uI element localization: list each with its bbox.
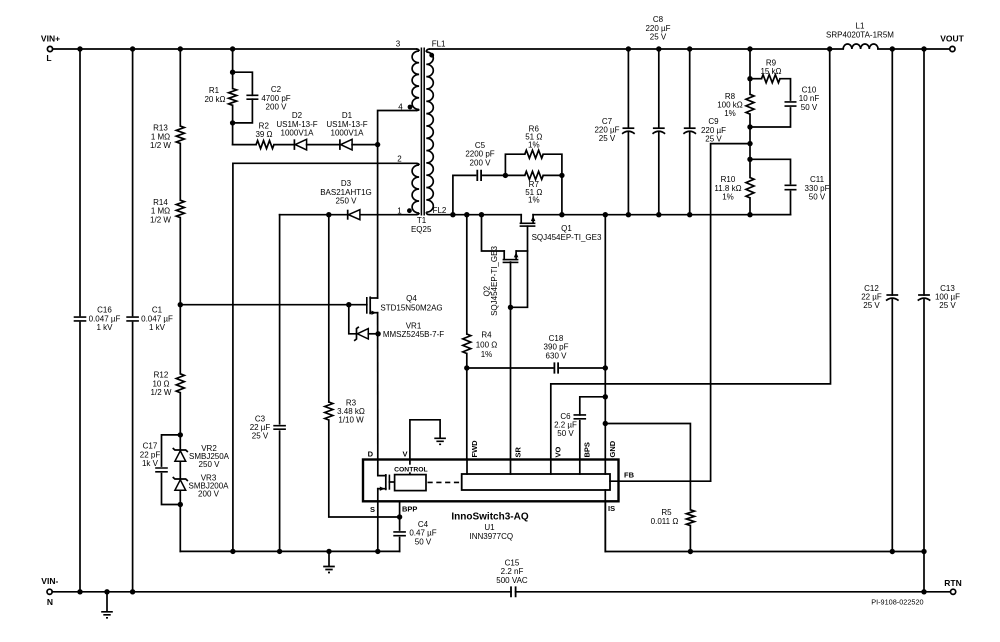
svg-text:100 Ω: 100 Ω (476, 340, 498, 349)
op-amp U1 IC box (363, 460, 619, 502)
pin BPP label (402, 504, 417, 513)
wire VR3 to gnd rail (179, 491, 181, 552)
pin 1 label + polarity dot (397, 206, 412, 215)
junction C12 at gnd rail (890, 549, 895, 554)
svg-text:BPP: BPP (402, 504, 417, 513)
wire VR2 to VR3 (179, 462, 181, 480)
wire R5 to gnd rail (689, 526, 691, 552)
svg-text:220 µF: 220 µF (701, 126, 726, 135)
svg-text:IS: IS (608, 504, 615, 513)
capacitor C1 (126, 306, 173, 332)
transformer T1 primary winding pins 3-4 (412, 49, 419, 111)
svg-text:PI-9108-022520: PI-9108-022520 (871, 598, 923, 607)
wire FB tap to riser (711, 144, 750, 482)
zener VR1 (349, 305, 444, 341)
wire D2 to D1 (307, 144, 340, 146)
junction R9/R8 top (747, 76, 752, 81)
pin VO label (554, 446, 563, 457)
svg-text:390 pF: 390 pF (544, 343, 569, 352)
zener VR2 (173, 444, 230, 469)
wire bottom rail (VIN- to C15) (52, 591, 511, 593)
svg-text:3.48 kΩ: 3.48 kΩ (337, 407, 365, 416)
ground (V pin) (434, 438, 446, 444)
node VOUT terminal (940, 34, 964, 52)
inductor L1 (826, 21, 894, 49)
capacitor C16 (74, 306, 121, 332)
U1 secondary block (462, 474, 610, 490)
junction top rail at R13 (178, 46, 183, 51)
junction C13/RTN at gnd rail (921, 549, 926, 554)
junction top rail at C12 (890, 46, 895, 51)
wire SR node to SR pin (510, 307, 512, 459)
wire top rail (VIN+ to transformer pin 3) (53, 48, 416, 50)
wire R13 to R14 (179, 143, 181, 200)
svg-text:MMSZ5245B-7-F: MMSZ5245B-7-F (383, 330, 444, 339)
wire primary gnd rail (180, 550, 399, 552)
svg-text:25 V: 25 V (939, 301, 956, 310)
svg-text:100 µF: 100 µF (935, 293, 960, 302)
svg-text:C13: C13 (940, 284, 955, 293)
svg-text:50 V: 50 V (415, 537, 432, 546)
junction top rail at C7 (626, 46, 631, 51)
svg-text:20 kΩ: 20 kΩ (204, 95, 225, 104)
junction C9 bottom (687, 212, 692, 217)
svg-text:1 MΩ: 1 MΩ (151, 132, 170, 141)
svg-text:1 kV: 1 kV (96, 323, 113, 332)
wire R4 top (466, 215, 468, 334)
junction R10 bottom (747, 212, 752, 217)
svg-text:25 V: 25 V (252, 432, 269, 441)
svg-text:C8: C8 (653, 15, 664, 24)
pin V label (402, 449, 407, 458)
wire R8 bottom (749, 114, 751, 159)
capacitor C6 (554, 397, 605, 460)
U1 name label (451, 512, 528, 541)
wire V pin internal (409, 460, 411, 475)
junction C7 bottom (626, 212, 631, 217)
capacitor C3 (250, 414, 286, 440)
svg-text:C3: C3 (255, 414, 266, 423)
pin 2 label (397, 154, 402, 163)
wire V pin to ground (410, 420, 440, 460)
resistor R9 (750, 58, 782, 82)
capacitor C17 (140, 435, 181, 505)
svg-text:C9: C9 (708, 117, 719, 126)
svg-text:1 MΩ: 1 MΩ (151, 207, 170, 216)
pin D label (368, 449, 374, 458)
transistor Q2 (483, 246, 519, 316)
svg-text:C10: C10 (802, 86, 817, 95)
svg-text:39 Ω: 39 Ω (255, 130, 272, 139)
svg-text:FL1: FL1 (432, 39, 446, 48)
diode D2 (276, 111, 317, 150)
svg-text:220 µF: 220 µF (594, 126, 619, 135)
svg-text:4700 pF: 4700 pF (261, 94, 290, 103)
junction top rail at C13 (921, 46, 926, 51)
junction S at gnd rail (375, 549, 380, 554)
pin GND stub (604, 460, 606, 475)
junction R8/C10 bottom (747, 124, 752, 129)
junction R6R7 left (503, 173, 508, 178)
junction bottom rail at C16 (77, 589, 82, 594)
wire R13-R14 column top (179, 49, 181, 126)
wire top output rail (FL1 to L1) (430, 48, 843, 50)
svg-text:C11: C11 (810, 175, 825, 184)
junction R5 at gnd rail (688, 549, 693, 554)
capacitor C12 (861, 49, 898, 552)
capacitor C7 (594, 49, 634, 215)
wire U1 dashed link (428, 481, 462, 483)
junction R1/C2 top (230, 70, 235, 75)
wire R2 to D2 (274, 144, 294, 146)
junction top rail at C8 (656, 46, 661, 51)
svg-text:D1: D1 (342, 111, 353, 120)
svg-text:US1M-13-F: US1M-13-F (326, 120, 367, 129)
wire D pin internal (378, 460, 386, 476)
capacitor C8 (645, 15, 670, 215)
svg-text:SQJ454EP-TI_GE3: SQJ454EP-TI_GE3 (490, 246, 499, 316)
svg-text:C16: C16 (97, 306, 112, 315)
svg-text:0.047 µF: 0.047 µF (141, 314, 173, 323)
svg-text:R12: R12 (154, 371, 169, 380)
svg-text:STD15N50M2AG: STD15N50M2AG (380, 304, 442, 313)
svg-text:U1: U1 (484, 523, 495, 532)
svg-text:C18: C18 (549, 334, 564, 343)
svg-text:630 V: 630 V (546, 351, 568, 360)
junction R10/C11 top (747, 157, 752, 162)
svg-text:1/2 W: 1/2 W (150, 141, 171, 150)
svg-text:VIN+: VIN+ (41, 34, 60, 44)
resistor R6 (505, 125, 562, 176)
node VIN+ terminal (41, 34, 60, 64)
capacitor C15 (496, 558, 528, 597)
svg-text:25 V: 25 V (599, 134, 616, 143)
svg-text:2200 pF: 2200 pF (465, 150, 494, 159)
svg-text:C5: C5 (475, 141, 486, 150)
svg-text:INN3977CQ: INN3977CQ (470, 532, 514, 541)
resistor R5 (651, 508, 695, 526)
pin BPS stub (579, 460, 581, 475)
svg-text:S: S (370, 505, 375, 514)
transformer T1 bias winding pins 2-1 (412, 163, 419, 214)
wire clamp row left (233, 144, 257, 146)
junction C3 at gnd rail (277, 549, 282, 554)
wire C1 column (132, 49, 134, 592)
wire R4 bottom to FWD (466, 354, 468, 460)
wire GND to R5 (605, 424, 690, 510)
wire R1 bottom (232, 105, 234, 144)
svg-text:3: 3 (396, 39, 401, 48)
svg-text:1 kV: 1 kV (149, 323, 166, 332)
svg-text:SR: SR (513, 446, 522, 457)
svg-text:FL2: FL2 (433, 206, 447, 215)
svg-text:C4: C4 (418, 520, 429, 529)
junction R6R7 right (559, 173, 564, 178)
transistor Q1 (520, 215, 602, 242)
svg-text:22 pF: 22 pF (140, 450, 161, 459)
pin S label (370, 505, 375, 514)
junction R1/C2 bottom (230, 120, 235, 125)
resistor R8 (717, 79, 754, 119)
drawing number label (871, 598, 923, 607)
junction R5 branch node (603, 421, 608, 426)
svg-text:2.2 nF: 2.2 nF (501, 567, 524, 576)
wire C5 to R7 (505, 174, 524, 176)
svg-text:220 µF: 220 µF (645, 24, 670, 33)
svg-text:1%: 1% (528, 196, 540, 205)
svg-text:Q1: Q1 (561, 224, 572, 233)
pin 3 label (396, 39, 401, 48)
svg-text:D: D (368, 449, 374, 458)
wire clamp junction down to Q4 drain (377, 145, 379, 298)
wire D3 to C3 branch (280, 214, 348, 216)
svg-text:R2: R2 (259, 122, 270, 131)
svg-text:1000V1A: 1000V1A (331, 129, 365, 138)
svg-text:R9: R9 (766, 58, 777, 67)
pin GND label (608, 440, 617, 457)
resistor R13 (150, 124, 184, 150)
svg-text:R5: R5 (661, 508, 672, 517)
junction C18 left (464, 365, 469, 370)
svg-text:C12: C12 (864, 284, 879, 293)
svg-text:VO: VO (554, 446, 563, 457)
junction GND column top (603, 212, 608, 217)
wire Q4 gate row (180, 304, 366, 306)
svg-text:L1: L1 (856, 21, 865, 30)
capacitor C11 (750, 159, 830, 214)
svg-text:CONTROL: CONTROL (394, 466, 428, 473)
svg-text:C17: C17 (143, 442, 158, 451)
svg-text:100 kΩ: 100 kΩ (717, 101, 743, 110)
svg-text:1%: 1% (528, 141, 540, 150)
wire secondary gnd rail (605, 501, 924, 592)
svg-text:22 µF: 22 µF (250, 423, 271, 432)
svg-text:0.047 µF: 0.047 µF (89, 314, 121, 323)
svg-text:10 nF: 10 nF (799, 94, 820, 103)
resistor R12 (151, 371, 185, 397)
svg-text:V: V (402, 449, 407, 458)
capacitor C4 (393, 520, 436, 552)
svg-text:200 V: 200 V (470, 158, 492, 167)
wire S pin (377, 501, 379, 551)
wire D1 to switch node (352, 144, 378, 146)
svg-text:10 Ω: 10 Ω (152, 379, 169, 388)
pin FL1 label + polarity dot (429, 39, 446, 57)
svg-text:R3: R3 (346, 398, 357, 407)
transformer T1 core (421, 48, 424, 216)
svg-text:R10: R10 (721, 175, 736, 184)
wire Q2 gate feed (482, 215, 505, 251)
capacitor C2 (233, 72, 291, 123)
wire Q2 drain to SR node (516, 250, 527, 252)
wire C3 column (279, 215, 281, 552)
junction C8 bottom (656, 212, 661, 217)
wire pin 1 to D3 (359, 214, 416, 216)
svg-text:200 V: 200 V (198, 490, 220, 499)
svg-text:15 kΩ: 15 kΩ (760, 67, 781, 76)
svg-text:11.8 kΩ: 11.8 kΩ (714, 184, 741, 193)
svg-text:VOUT: VOUT (940, 34, 964, 44)
wire FL2 rail right of Q1 (533, 214, 790, 216)
transformer T1 reference label (411, 216, 432, 234)
svg-text:1k V: 1k V (142, 459, 159, 468)
wire VO sense riser (551, 49, 831, 460)
pin SR label (513, 446, 522, 457)
junction D3/R3 node (326, 212, 331, 217)
wire BPP pin (399, 501, 401, 530)
resistor R2 (255, 122, 274, 149)
svg-text:0.011 Ω: 0.011 Ω (651, 517, 679, 526)
transformer T1 secondary winding FL1-FL2 (426, 49, 433, 215)
wire rail to divider (749, 49, 751, 79)
capacitor C13 (918, 49, 960, 552)
svg-text:VIN-: VIN- (41, 576, 58, 586)
wire R3 to BPP wire (329, 420, 400, 517)
capacitor C10 (750, 79, 819, 127)
wire R1 column top (232, 49, 234, 89)
wire top output rail (L1 to VOUT) (878, 48, 950, 50)
wire Q1 gate down (511, 226, 528, 307)
svg-text:22 µF: 22 µF (861, 293, 882, 302)
svg-text:50 V: 50 V (801, 103, 818, 112)
capacitor C18 (467, 334, 606, 374)
svg-text:US1M-13-F: US1M-13-F (276, 120, 317, 129)
wire FB pin (610, 480, 711, 482)
junction VR1 gate node (346, 302, 351, 307)
transistor U1 internal MOSFET (378, 475, 395, 501)
svg-text:250 V: 250 V (336, 197, 358, 206)
junction C17 bottom (178, 502, 183, 507)
junction BPP/R3 (397, 514, 402, 519)
wire R14 to R12 (179, 218, 181, 374)
zener VR3 (173, 474, 229, 499)
pin 4 label + polarity dot (398, 102, 412, 111)
svg-text:L: L (46, 53, 51, 63)
svg-text:1%: 1% (481, 350, 493, 359)
junction Q2 gate tap (479, 212, 484, 217)
junction top rail at R1 (230, 46, 235, 51)
wire pin 2 to left column (233, 163, 416, 551)
svg-text:C15: C15 (505, 558, 520, 567)
junction C6 top node (603, 394, 608, 399)
junction top rail at C9 (687, 46, 692, 51)
node VIN- terminal (41, 576, 58, 607)
junction C17 top (178, 432, 183, 437)
svg-text:200 V: 200 V (266, 103, 288, 112)
junction Q4 gate tap (178, 302, 183, 307)
svg-text:50 V: 50 V (809, 193, 826, 202)
wire pin 4 to switch column (378, 111, 416, 145)
junction C5 tap (450, 212, 455, 217)
svg-text:330 pF: 330 pF (805, 184, 830, 193)
diode D1 (326, 111, 367, 150)
junction SR node (508, 305, 513, 310)
junction FB tap (747, 141, 752, 146)
svg-text:InnoSwitch3-AQ: InnoSwitch3-AQ (451, 512, 528, 523)
wire ground stub (328, 551, 330, 566)
svg-text:500 VAC: 500 VAC (496, 576, 528, 585)
capacitor C5 (453, 141, 506, 215)
junction clamp/switch node (375, 142, 380, 147)
svg-text:RTN: RTN (944, 578, 961, 588)
svg-text:2: 2 (397, 154, 402, 163)
pin SR stub (510, 460, 512, 475)
svg-text:R8: R8 (725, 92, 736, 101)
svg-text:1000V1A: 1000V1A (281, 129, 315, 138)
svg-text:R1: R1 (209, 86, 220, 95)
svg-text:1/2 W: 1/2 W (151, 388, 172, 397)
ground (primary return) (323, 567, 335, 573)
svg-text:R14: R14 (153, 198, 168, 207)
svg-text:SQJ454EP-TI_GE3: SQJ454EP-TI_GE3 (532, 233, 602, 242)
pin BPS label (583, 442, 592, 457)
junction R6R7 right leg (559, 212, 564, 217)
wire bottom rail (C15 to RTN) (516, 591, 951, 593)
wire C16 column (79, 49, 81, 592)
wire FL2 rail left of Q1 (430, 214, 521, 216)
svg-text:Q4: Q4 (406, 294, 417, 303)
junction C18 right (603, 365, 608, 370)
svg-text:1%: 1% (722, 193, 734, 202)
svg-text:T1: T1 (417, 216, 427, 225)
svg-text:N: N (47, 597, 53, 607)
wire GND column (604, 215, 606, 460)
svg-text:C2: C2 (271, 85, 282, 94)
svg-text:1/10 W: 1/10 W (338, 416, 364, 425)
junction VR1 at source column (375, 331, 380, 336)
U1 CONTROL block (392, 465, 430, 491)
pin FL2 label (433, 206, 447, 215)
svg-text:R13: R13 (153, 124, 168, 133)
svg-text:D2: D2 (292, 111, 303, 120)
pin FWD label (470, 440, 479, 458)
junction gnd stub (326, 549, 331, 554)
svg-text:R4: R4 (481, 331, 492, 340)
junction bottom rail at C1 (130, 589, 135, 594)
pin VO stub (550, 460, 552, 475)
resistor R3 (325, 398, 365, 424)
svg-text:2.2 µF: 2.2 µF (554, 421, 577, 430)
svg-text:BPS: BPS (583, 442, 592, 457)
junction top rail at C1 (130, 46, 135, 51)
svg-text:SRP4020TA-1R5M: SRP4020TA-1R5M (826, 30, 894, 39)
node RTN terminal (944, 578, 961, 595)
svg-text:C7: C7 (602, 117, 613, 126)
svg-text:25 V: 25 V (650, 33, 667, 42)
svg-text:C6: C6 (560, 412, 571, 421)
wire IS pin (604, 490, 606, 552)
svg-text:BAS21AHT1G: BAS21AHT1G (320, 188, 372, 197)
svg-text:50 V: 50 V (557, 429, 574, 438)
capacitor C9 (683, 49, 726, 215)
junction R4 tap (464, 212, 469, 217)
junction top rail at C16 (77, 46, 82, 51)
svg-text:250 V: 250 V (199, 460, 221, 469)
wire bottom ground stub (106, 592, 108, 612)
svg-text:FB: FB (624, 471, 635, 480)
svg-text:1%: 1% (724, 109, 736, 118)
junction RTN at bottom rail (921, 589, 926, 594)
resistor R14 (150, 198, 184, 224)
svg-text:1/2 W: 1/2 W (150, 215, 171, 224)
svg-text:D3: D3 (341, 179, 352, 188)
diode D3 (320, 179, 372, 220)
junction top rail at divider (747, 46, 752, 51)
junction pin2 column at gnd rail (230, 549, 235, 554)
pin FWD stub (466, 460, 468, 475)
wire Q4 source to D pin (377, 313, 379, 460)
transistor Q4 (367, 294, 443, 315)
